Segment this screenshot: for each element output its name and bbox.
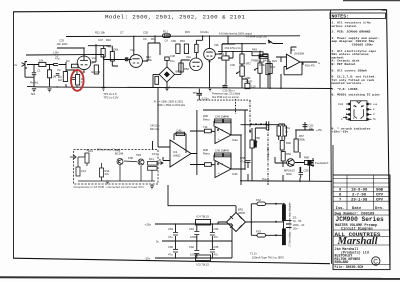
svg-text:Model: 2500, 2501, 2502, 2100: Model: 2500, 2501, 2502, 2100 & 2101 [105,14,245,21]
svg-text:C51 470p 2 kv: C51 470p 2 kv [225,47,242,50]
svg-text:47u: 47u [240,159,245,163]
svg-text:Drn.: Drn. [375,207,384,211]
svg-text:V2a: V2a [186,55,191,59]
svg-text:8: 8 [339,194,342,198]
svg-text:5. All covers 100mA: 5. All covers 100mA [332,68,367,72]
svg-text:47u: 47u [214,235,219,239]
svg-text:-: - [288,56,289,60]
svg-text:R50: R50 [184,67,189,71]
svg-text:R64: R64 [219,52,224,56]
svg-text:R62: R62 [286,141,291,145]
svg-text:RL1: RL1 [163,30,168,34]
svg-text:15: 15 [361,105,364,108]
svg-text:FX1: FX1 [152,152,157,156]
svg-text:R -- = 250k: 2500 & 2501: R -- = 250k: 2500 & 2501 [154,100,184,104]
svg-text:V2b: V2b [214,43,219,47]
svg-text:7: 7 [361,117,363,120]
svg-text:+: + [218,137,220,141]
svg-text:5: 5 [346,112,348,116]
svg-text:1000u: 1000u [190,253,198,257]
svg-text:FS3: FS3 [256,230,261,234]
svg-text:IC4 78L15: IC4 78L15 [197,215,210,219]
svg-text:5v: 5v [373,117,376,121]
svg-text:A: A [318,61,320,65]
svg-text:IC2b: IC2b [232,172,238,176]
svg-text:47u: 47u [214,253,219,257]
svg-text:C47: C47 [98,38,103,42]
svg-text:C62: C62 [189,245,194,249]
svg-text:Retro: Retro [203,117,210,121]
svg-text:1k: 1k [255,139,258,143]
svg-text:1000u: 1000u [190,235,198,239]
svg-text:R67: R67 [299,134,304,138]
svg-text:R51: R51 [180,39,185,43]
svg-text:R45: R45 [203,114,208,118]
svg-text:C35: C35 [143,31,148,35]
svg-text:0.22u: 0.22u [202,97,209,101]
svg-text:C50: C50 [171,39,176,43]
svg-text:CH1: CH1 [338,102,344,106]
svg-text:D1:: D1: [293,216,297,220]
svg-text:100k: 100k [113,48,119,52]
svg-text:IC1: IC1 [291,48,296,52]
svg-text:J1: J1 [14,63,17,67]
svg-text:3: 3 [373,112,375,116]
svg-text:CPV: CPV [376,199,384,203]
svg-text:FX Free Loop Out: FX Free Loop Out [246,35,267,39]
svg-text:10n 200v: 10n 200v [57,42,69,46]
svg-text:C7: C7 [120,31,124,35]
svg-text:0v: 0v [156,240,159,244]
svg-text:TR2: TR2 [136,153,142,157]
svg-text:mounted versions.: mounted versions. [332,81,364,85]
svg-text:5k1: 5k1 [31,92,36,96]
svg-text:Footswitch: Footswitch [315,161,329,165]
svg-text:29-1-98: 29-1-98 [351,199,368,203]
svg-text:C30: C30 [230,63,235,67]
svg-text:R9: R9 [108,45,112,49]
svg-text:R63: R63 [252,48,257,52]
svg-text:Marshall: Marshall [337,236,378,247]
svg-text:IC2a: IC2a [232,138,238,142]
svg-text:10u: 10u [309,127,314,131]
svg-text:C00108 100w: C00108 100w [352,42,373,46]
svg-text:R10: R10 [106,38,111,42]
svg-text:T1 2+: T1 2+ [250,252,257,256]
svg-text:R66: R66 [255,136,260,140]
svg-text:R15: R15 [185,30,190,34]
svg-text:200v - 10: 200v - 10 [293,223,305,227]
svg-text:V1b: V1b [130,48,135,52]
svg-text:FS2: FS2 [256,198,261,202]
svg-text:+: + [218,171,220,175]
svg-text:20v -: 20v - [293,227,299,231]
svg-text:0va: 0va [262,177,267,181]
svg-text:C64: C64 [214,227,219,231]
svg-text:1.5M: 1.5M [53,52,58,55]
svg-text:2: 2 [353,117,355,120]
svg-text:C6: C6 [143,37,147,41]
svg-text:9: 9 [339,189,342,193]
svg-text:C66: C66 [168,245,173,249]
svg-text:LM 833M: LM 833M [294,53,304,56]
svg-text:R49: R49 [224,149,229,153]
svg-text:1M: 1M [58,78,62,82]
svg-text:BC184: BC184 [115,152,124,156]
svg-text:Rx 5k1: Rx 5k1 [30,81,39,85]
svg-text:7: 7 [339,199,342,203]
svg-text:B: PET Radial: B: PET Radial [332,62,356,66]
svg-text:18-9-98: 18-9-98 [351,189,368,193]
svg-text:CA: CA [165,39,169,42]
svg-text:47u: 47u [168,253,173,257]
svg-text:Iss.: Iss. [336,207,345,211]
svg-text:2. PCB: JCM900 DRAWN2: 2. PCB: JCM900 DRAWN2 [332,29,371,33]
svg-text:470k: 470k [146,58,152,62]
svg-text:Date: Date [352,207,362,211]
svg-text:W005: W005 [238,211,246,215]
svg-text:R46: R46 [224,115,229,119]
svg-text:47k: 47k [105,172,110,176]
svg-text:-: - [218,130,219,134]
svg-text:C65: C65 [214,245,219,249]
svg-text:47p: 47p [55,57,60,61]
svg-text:+15v: +15v [316,128,323,132]
svg-text:Main PCB: Main PCB [267,146,270,158]
svg-text:IC5 79L15: IC5 79L15 [197,263,210,267]
svg-text:-: - [218,164,219,168]
svg-text:this PCB only on some!: this PCB only on some! [212,95,239,99]
svg-text:C: C [373,258,378,265]
svg-text:+15v: +15v [145,223,152,227]
svg-text:Components in FX PCB : connect: Components in FX PCB : connected via twi… [74,185,145,189]
svg-text:C9 22u: C9 22u [200,30,209,34]
svg-text:R16 47k: R16 47k [305,63,316,67]
svg-text:390k: 390k [299,137,305,141]
svg-text:C40: C40 [177,129,182,133]
svg-text:+ve: +ve [373,103,378,106]
svg-text:R11: R11 [151,37,156,41]
svg-text:R41 10k: R41 10k [150,128,160,131]
svg-text:100k = 2502 & 2100 alts: 100k = 2502 & 2100 alts [157,103,186,107]
svg-text:R63: R63 [286,152,291,156]
svg-text:C58: C58 [240,156,245,160]
svg-text:Retro: Retro [203,151,210,155]
svg-text:C4: C4 [57,68,61,72]
svg-text:2-7-98: 2-7-98 [352,194,367,198]
svg-text:ENGLAND: ENGLAND [335,260,349,264]
svg-text:400x: 400x [286,172,292,176]
svg-text:LT Secondary - see Power amp d: LT Secondary - see Power amp diagram [289,202,292,247]
svg-text:NOTES:: NOTES: [332,14,350,20]
svg-text:4: 4 [341,117,343,121]
svg-text:TP1 0v-1.5: TP1 0v-1.5 [104,92,118,96]
svg-text:C1: C1 [37,69,41,73]
svg-text:ECC83: ECC83 [92,70,101,74]
svg-text:C59: C59 [304,169,309,173]
svg-text:R17: R17 [271,65,276,69]
svg-text:LM633: LM633 [173,155,181,158]
svg-text:C48: C48 [170,54,175,58]
svg-text:File: D0500.SCH: File: D0500.SCH [335,265,364,269]
svg-text:400R: 400R [246,79,252,83]
svg-text:V1a: V1a [92,56,97,60]
svg-text:R48: R48 [203,148,208,152]
svg-text:10u: 10u [170,59,175,63]
svg-text:RL1: RL1 [149,157,154,161]
svg-text:BASS: BASS [263,59,270,63]
svg-text:C10: C10 [251,85,256,89]
svg-text:unless stated.: unless stated. [332,24,358,28]
svg-text:10k: 10k [39,58,44,62]
svg-text:22k: 22k [265,55,270,59]
svg-text:C63: C63 [168,227,173,231]
svg-text:B: B [159,158,161,162]
svg-text:R13: R13 [88,149,93,153]
svg-text:R68: R68 [304,156,309,160]
svg-text:JCM900 Series: JCM900 Series [336,216,385,223]
svg-text:C33: C33 [59,39,64,43]
svg-text:1k: 1k [285,129,288,133]
svg-text:0v - 50: 0v - 50 [293,219,302,223]
svg-text:C61: C61 [189,227,194,231]
svg-text:71k: 71k [203,125,208,129]
svg-text:TP3: TP3 [193,91,198,95]
svg-text:47u: 47u [168,235,173,239]
svg-text:R4: R4 [66,59,70,63]
svg-text:8. M5851 switching IC pins: 8. M5851 switching IC pins [332,92,380,96]
svg-text:R61: R61 [285,126,290,130]
svg-text:R21: R21 [272,59,277,63]
svg-text:TP2 1v-3.5V: TP2 1v-3.5V [104,96,119,100]
svg-text:CPV: CPV [376,194,384,198]
svg-text:R11 10k: R11 10k [95,31,105,35]
svg-text:7. *V,K: LOCKS: 7. *V,K: LOCKS [332,87,358,91]
svg-text:C13: C13 [81,169,86,173]
svg-text:-15v: -15v [145,257,151,261]
svg-text:IC2: IC2 [173,150,178,154]
svg-text:470k: 470k [259,63,265,67]
svg-text:BR2: BR2 [176,70,182,74]
svg-text:2: 2 [373,107,375,111]
svg-text:SGB: SGB [376,189,384,193]
svg-text:FSP: FSP [128,156,133,160]
svg-text:100mA Type TM-1 to JB70: 100mA Type TM-1 to JB70 [252,255,284,259]
svg-text:+15v/-15v: +15v/-15v [332,130,349,134]
svg-text:R8: R8 [90,61,94,65]
